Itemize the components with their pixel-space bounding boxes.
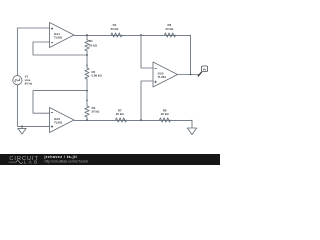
R3 label (92, 106, 101, 114)
node R2/R3 (86, 90, 88, 92)
node R4/R6 to OA3 - (140, 34, 142, 36)
node output / feedback (190, 74, 192, 76)
wire from source down to bottom-left corner then right to OA2 + input (17, 85, 49, 126)
ground GND1 (18, 126, 26, 134)
voltage source V1 (13, 76, 22, 85)
R6 label (165, 23, 174, 31)
svg-text:TL081: TL081 (54, 121, 63, 125)
node: ground junction (21, 126, 23, 128)
wire from bottom rail up to OA3 + input (141, 81, 153, 120)
wire from OA1 + input left and down to source (17, 28, 49, 75)
svg-text:20 kΩ: 20 kΩ (92, 110, 101, 114)
node bottom rail R7/R8 (140, 119, 142, 121)
R2 label (92, 70, 103, 78)
probe flag Vo (198, 66, 208, 76)
svg-text:LAB: LAB (24, 160, 40, 165)
wire OA1 - feedback from R1/R2 node (33, 42, 87, 55)
vertical resistor chain wire (86, 35, 88, 120)
R4 label (111, 23, 120, 31)
op-amp OA3 (153, 62, 178, 87)
svg-text:20 kΩ: 20 kΩ (116, 112, 125, 116)
svg-text:Vo: Vo (203, 67, 207, 71)
node R3 top terminal (86, 99, 88, 101)
resistor R1 (85, 40, 89, 51)
svg-text:R1: R1 (89, 39, 93, 43)
resistor R7 (116, 118, 127, 122)
svg-text:20 kΩ: 20 kΩ (111, 27, 120, 31)
node R2 top terminal (86, 64, 88, 66)
R7 label (116, 108, 125, 116)
wire feedback right down to output node (190, 35, 192, 75)
wire bottom rail right corner down to ground (191, 120, 193, 128)
node OA2 out / R3 (86, 119, 88, 121)
wire OA2 - feedback from R2/R3 node (33, 91, 87, 114)
op-amp OA1 (50, 23, 75, 48)
svg-text:20 kΩ: 20 kΩ (165, 27, 174, 31)
resistor R6 (165, 33, 176, 37)
R1 label (89, 39, 98, 47)
svg-text:http://circuitlab.com/c/7e2etr: http://circuitlab.com/c/7e2etr (45, 159, 90, 163)
footer bar (0, 154, 220, 165)
node R1/R2 (86, 54, 88, 56)
svg-text:0.86 kΩ: 0.86 kΩ (92, 74, 103, 78)
ground GND2 (187, 128, 196, 135)
resistor R2 (85, 68, 89, 79)
CircuitLab logo (9, 156, 40, 164)
V1 value labels (25, 74, 33, 85)
resistor R4 (111, 33, 122, 37)
svg-text:jrchavez / ta-jit: jrchavez / ta-jit (44, 155, 78, 159)
svg-text:60 Hz: 60 Hz (25, 82, 33, 86)
resistor R8 (160, 118, 171, 122)
svg-text:20 kΩ: 20 kΩ (161, 112, 170, 116)
footer credit text (44, 155, 90, 164)
R8 label (161, 108, 170, 116)
wire OA1 output to top rail (74, 34, 191, 36)
wire from R4/R6 node down to OA3 - input (141, 35, 153, 68)
wire OA3 output (178, 74, 200, 76)
resistor R3 (85, 106, 89, 117)
svg-text:TL081: TL081 (158, 75, 167, 79)
svg-text:TL081: TL081 (54, 36, 63, 40)
svg-text:20 kΩ: 20 kΩ (89, 44, 98, 48)
node OA1 out / R1 (86, 34, 88, 36)
op-amp OA2 (50, 108, 75, 133)
wire OA2 output bottom rail (74, 119, 192, 121)
